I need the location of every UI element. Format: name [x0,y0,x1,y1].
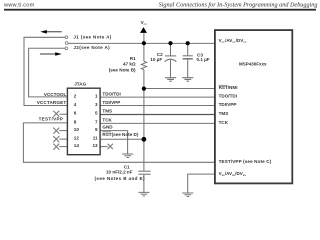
svg-text:TMS: TMS [219,111,229,116]
svg-text:10 nF/2.2 nF: 10 nF/2.2 nF [106,170,133,175]
svg-text:RST(see Note D): RST(see Note D) [102,132,138,137]
svg-text:www.ti.com: www.ti.com [3,2,35,8]
svg-text:VCCTARGET: VCCTARGET [37,100,67,105]
svg-text:5: 5 [95,111,98,116]
svg-text:TDO/TDI: TDO/TDI [102,92,120,97]
svg-text:J2(see Note A): J2(see Note A) [73,45,110,50]
svg-text:12: 12 [74,136,80,141]
svg-text:TEST/VPP: TEST/VPP [39,116,64,121]
svg-text:JTAG: JTAG [74,82,86,87]
svg-text:TDI/VPP: TDI/VPP [219,102,237,107]
svg-text:4: 4 [74,102,77,107]
svg-text:3: 3 [95,102,98,107]
svg-text:13: 13 [92,143,98,148]
svg-text:9: 9 [95,127,98,132]
svg-text:6: 6 [74,111,77,116]
svg-text:R1: R1 [130,56,136,61]
svg-text:14: 14 [74,143,80,148]
svg-text:8: 8 [74,119,77,124]
svg-text:TCK: TCK [102,117,112,122]
svg-text:10 µF: 10 µF [150,57,162,62]
svg-text:TDO/TDI: TDO/TDI [219,94,237,99]
svg-text:TDI/VPP: TDI/VPP [102,100,120,105]
svg-text:VCCTOOL: VCCTOOL [44,92,67,97]
svg-text:TMS: TMS [102,109,112,114]
svg-text:2: 2 [74,94,77,99]
svg-text:7: 7 [95,119,98,124]
svg-text:GND: GND [102,125,113,130]
svg-text:10: 10 [74,127,80,132]
svg-text:(see Note B): (see Note B) [109,68,136,73]
svg-text:47 kΩ: 47 kΩ [123,62,136,67]
svg-text:(see Notes B and E): (see Notes B and E) [95,176,145,181]
svg-text:0.1 µF: 0.1 µF [197,57,210,62]
svg-text:1: 1 [95,94,98,99]
svg-text:VCC: VCC [141,20,148,26]
svg-text:RST/NMI: RST/NMI [219,85,238,90]
svg-text:TEST/VPP (see Note C): TEST/VPP (see Note C) [219,159,272,164]
svg-text:Signal Connections for In-Syst: Signal Connections for In-System Program… [159,2,318,9]
svg-text:11: 11 [93,136,98,141]
svg-text:J1 (see Note A): J1 (see Note A) [73,35,111,40]
svg-text:TCK: TCK [219,120,229,125]
svg-text:MSP430Fxxx: MSP430Fxxx [239,62,267,67]
